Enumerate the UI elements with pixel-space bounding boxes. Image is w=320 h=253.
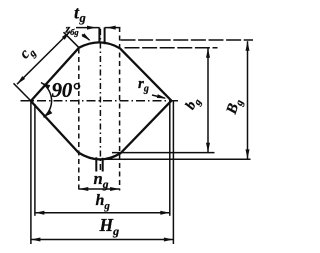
svg-text:Hg: Hg [99, 215, 120, 238]
svg-text:ng: ng [94, 169, 109, 191]
svg-text:bg: bg [183, 95, 204, 114]
svg-text:rg: rg [138, 76, 149, 95]
svg-text:tg: tg [74, 3, 86, 26]
svg-text:Bg: Bg [223, 97, 246, 118]
svg-text:90°: 90° [52, 78, 81, 102]
svg-text:zбg: zбg [65, 22, 80, 38]
svg-text:cg: cg [17, 42, 39, 64]
svg-text:hg: hg [96, 192, 111, 212]
